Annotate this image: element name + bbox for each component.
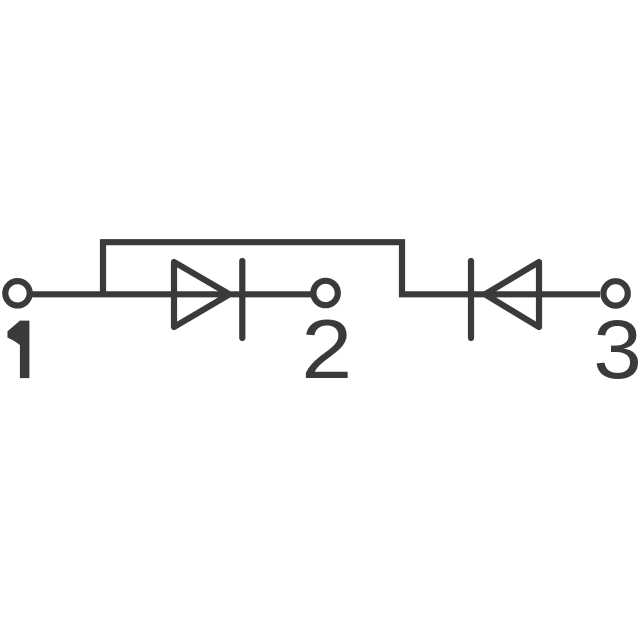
svg-text:3: 3 bbox=[593, 304, 640, 397]
svg-text:2: 2 bbox=[301, 303, 352, 396]
